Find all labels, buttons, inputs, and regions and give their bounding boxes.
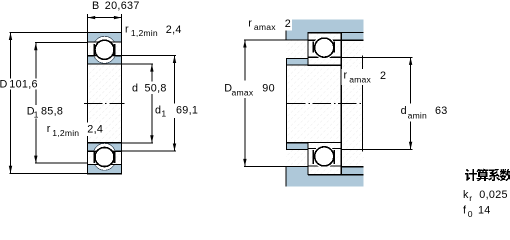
svg-text:0: 0 xyxy=(468,209,473,218)
svg-text:2: 2 xyxy=(285,18,291,30)
right bearing land edge bottom xyxy=(333,150,335,164)
label calculation factors (Chinese) xyxy=(465,169,477,181)
right bearing land edge top xyxy=(312,41,314,52)
housing top borders xyxy=(285,20,287,40)
dimension Da line xyxy=(244,40,246,167)
housing top cross-section xyxy=(286,20,363,41)
right bearing land edge bottom xyxy=(312,150,314,164)
right axis centerline xyxy=(287,102,362,104)
shaft seat line top xyxy=(287,64,308,66)
dimension d line xyxy=(151,64,153,143)
svg-text:2,4: 2,4 xyxy=(87,123,103,135)
shaft left shoulder bottom xyxy=(287,143,308,150)
svg-text:amax: amax xyxy=(349,74,371,84)
housing bottom borders xyxy=(285,167,287,187)
svg-text:r: r xyxy=(47,123,51,135)
left bearing land edge bottom xyxy=(93,152,95,163)
svg-text:2,4: 2,4 xyxy=(166,24,182,36)
dimension D1 line xyxy=(35,43,37,164)
right bearing land lines bottom xyxy=(308,148,341,150)
left bearing outer ring top cross-section xyxy=(88,33,122,42)
left bearing raceway groove inner bottom xyxy=(93,143,115,165)
left bearing raceway groove outer bottom xyxy=(93,148,115,170)
left bearing ball top xyxy=(95,40,114,59)
dimension d1 line xyxy=(174,55,176,151)
dimension D extension lines xyxy=(10,31,88,33)
svg-text:101,6: 101,6 xyxy=(9,78,38,90)
left bearing axis centerline xyxy=(84,102,125,104)
svg-text:90: 90 xyxy=(262,83,275,95)
left bearing land edge top xyxy=(93,44,95,55)
label D_amax 90 xyxy=(222,80,276,98)
svg-text:1,2min: 1,2min xyxy=(52,128,79,138)
dimension B line xyxy=(88,17,122,19)
right bearing land edge top xyxy=(333,41,335,52)
dimension Da extension lines xyxy=(244,39,286,41)
right bearing right edge full xyxy=(340,33,342,175)
label d_amin 63 xyxy=(398,103,450,121)
svg-text:amin: amin xyxy=(408,110,427,120)
right drawing hatch area xyxy=(286,20,363,187)
shaft right end face xyxy=(361,56,363,152)
dimension da_min line xyxy=(410,57,412,149)
svg-text:1,2min: 1,2min xyxy=(131,28,158,38)
svg-text:r: r xyxy=(469,193,472,203)
svg-text:d: d xyxy=(155,105,161,117)
left bearing ball bottom xyxy=(95,147,114,166)
left bearing land edge bottom xyxy=(114,152,116,163)
svg-text:85,8: 85,8 xyxy=(41,105,63,117)
svg-text:B: B xyxy=(92,0,100,12)
left bearing outer ring bottom cross-section xyxy=(88,164,122,173)
svg-text:amax: amax xyxy=(232,88,254,98)
label d1 69,1 xyxy=(153,104,201,119)
dimension d1 extension lines xyxy=(122,54,176,56)
right bearing ball top xyxy=(315,38,334,57)
dimension B extension lines xyxy=(87,14,89,33)
svg-text:1: 1 xyxy=(161,109,166,119)
svg-text:20,637: 20,637 xyxy=(105,0,140,12)
svg-text:r: r xyxy=(125,24,129,36)
dimension D1 extension lines xyxy=(35,42,88,44)
label r_amax 2 middle xyxy=(342,69,389,85)
dimension da extension lines xyxy=(341,56,412,58)
label d 50,8 xyxy=(129,82,173,95)
svg-text:d: d xyxy=(132,83,138,95)
left bearing raceway groove outer top xyxy=(93,36,115,58)
right bearing raceway groove bottom xyxy=(313,145,336,168)
svg-text:0,025: 0,025 xyxy=(479,189,508,201)
left bearing raceway groove inner top xyxy=(93,41,115,63)
left bearing inner ring bottom cross-section xyxy=(88,143,122,151)
label D1 85,8 xyxy=(25,105,66,119)
svg-text:63: 63 xyxy=(435,105,448,117)
svg-text:14: 14 xyxy=(478,205,491,217)
left bearing outline xyxy=(88,33,122,174)
svg-text:r: r xyxy=(344,70,348,82)
left bearing inner ring top cross-section xyxy=(88,56,122,64)
svg-text:2: 2 xyxy=(380,70,386,82)
shaft seat line bottom xyxy=(287,142,308,144)
svg-text:50,8: 50,8 xyxy=(145,83,167,95)
svg-text:d: d xyxy=(401,105,407,117)
svg-text:r: r xyxy=(248,18,252,30)
housing bottom cross-section xyxy=(286,167,363,187)
right bearing land lines top xyxy=(308,39,341,41)
shaft left end face xyxy=(286,58,288,149)
svg-text:amax: amax xyxy=(254,22,276,32)
label D 101,6 xyxy=(0,79,40,90)
right bearing outline top section xyxy=(308,33,341,66)
right bearing ball bottom xyxy=(315,147,334,166)
left bearing land edge top xyxy=(114,44,116,55)
dimension D line xyxy=(10,32,12,173)
right bearing raceway groove top xyxy=(313,36,336,59)
svg-text:69,1: 69,1 xyxy=(176,105,198,117)
left bearing section hatch interior xyxy=(88,33,122,174)
dimension d extension lines xyxy=(122,63,153,65)
shaft left shoulder top xyxy=(287,58,308,65)
svg-text:D: D xyxy=(0,78,8,90)
svg-text:1: 1 xyxy=(34,109,39,119)
right bearing outline bottom section xyxy=(308,143,341,175)
svg-text:k: k xyxy=(463,189,469,201)
